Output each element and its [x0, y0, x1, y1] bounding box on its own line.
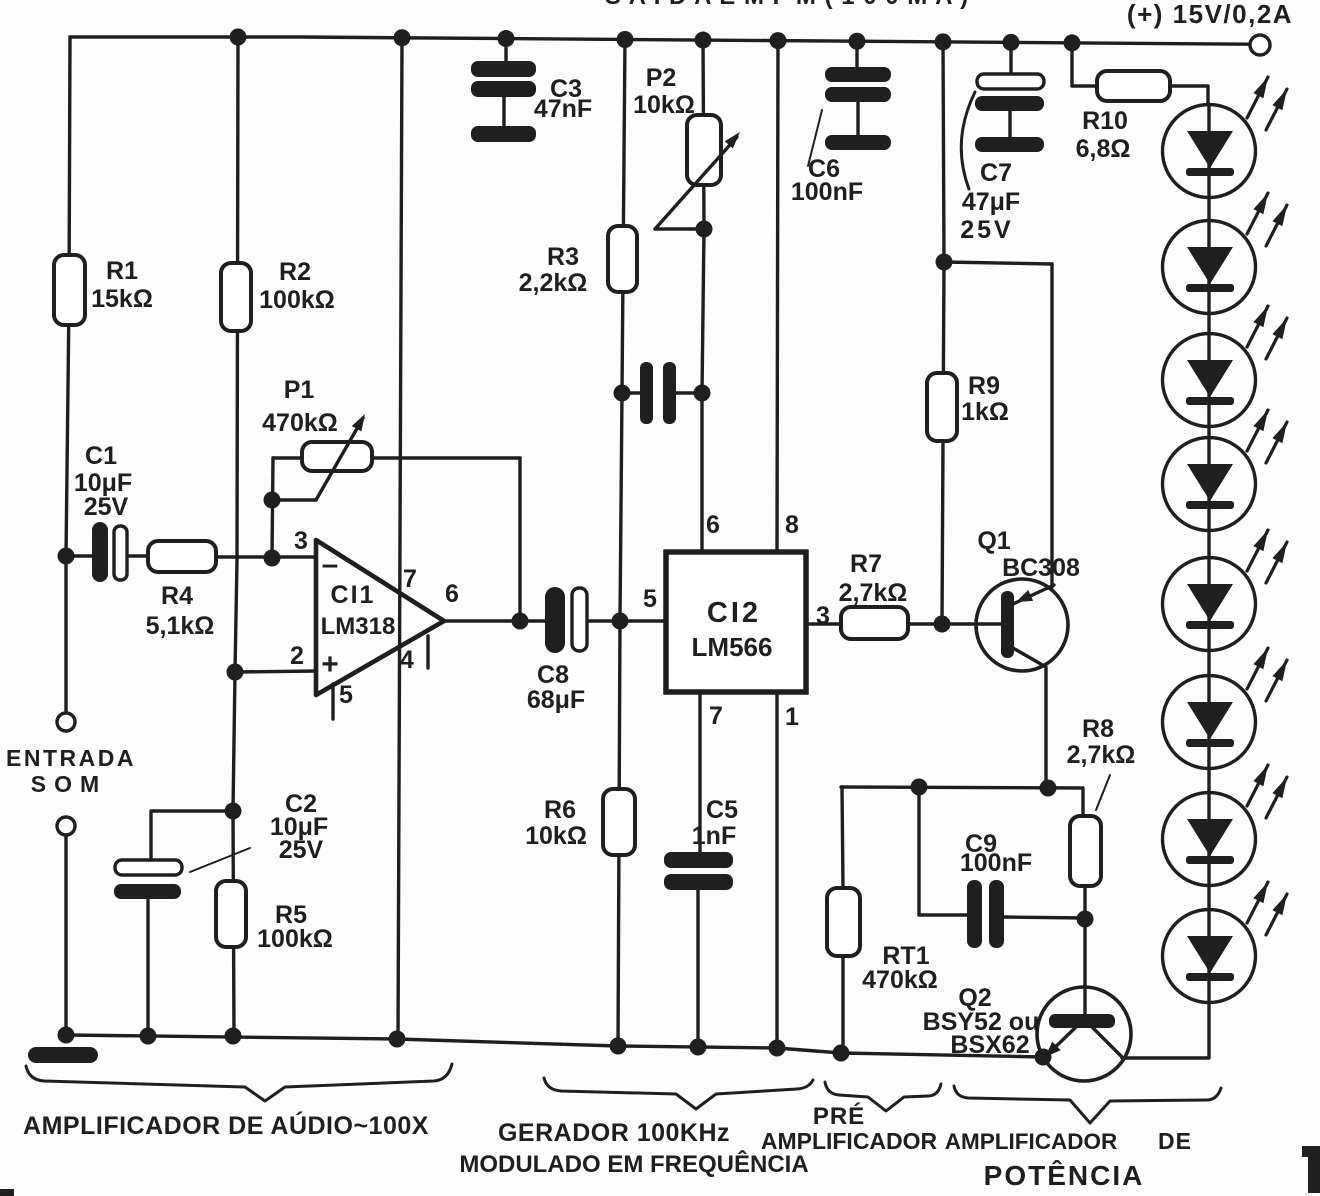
- svg-text:100nF: 100nF: [791, 178, 863, 206]
- svg-text:C7: C7: [980, 159, 1012, 187]
- svg-text:2,7kΩ: 2,7kΩ: [839, 579, 908, 607]
- svg-text:SOM: SOM: [31, 771, 107, 797]
- svg-text:25V: 25V: [84, 493, 129, 521]
- svg-text:470kΩ: 470kΩ: [862, 966, 938, 994]
- svg-text:BSX62: BSX62: [950, 1031, 1029, 1059]
- svg-text:MODULADO EM FREQUÊNCIA: MODULADO EM FREQUÊNCIA: [459, 1150, 808, 1178]
- svg-text:2,2kΩ: 2,2kΩ: [519, 269, 588, 297]
- svg-text:PRÉ: PRÉ: [813, 1102, 865, 1130]
- svg-text:25V: 25V: [279, 836, 324, 864]
- svg-text:10kΩ: 10kΩ: [525, 822, 587, 850]
- svg-text:100kΩ: 100kΩ: [259, 286, 335, 314]
- svg-text:R4: R4: [161, 582, 193, 610]
- svg-text:P2: P2: [646, 64, 677, 92]
- svg-text:15kΩ: 15kΩ: [91, 285, 153, 313]
- svg-text:(+) 15V/0,2A: (+) 15V/0,2A: [1127, 0, 1293, 29]
- svg-text:5: 5: [339, 681, 353, 709]
- svg-text:R7: R7: [850, 550, 882, 578]
- svg-text:R10: R10: [1082, 107, 1128, 135]
- svg-text:1kΩ: 1kΩ: [961, 398, 1009, 426]
- svg-text:4: 4: [400, 646, 414, 674]
- svg-text:GERADOR 100KHz: GERADOR 100KHz: [498, 1119, 730, 1147]
- svg-text:6: 6: [445, 580, 459, 608]
- svg-text:10kΩ: 10kΩ: [633, 91, 695, 119]
- svg-text:R9: R9: [968, 372, 1000, 400]
- svg-text:1nF: 1nF: [692, 822, 736, 850]
- svg-text:R8: R8: [1082, 715, 1114, 743]
- svg-text:6: 6: [706, 511, 720, 539]
- svg-text:C5: C5: [706, 796, 738, 824]
- svg-text:100kΩ: 100kΩ: [257, 925, 333, 953]
- svg-text:5: 5: [643, 585, 657, 613]
- svg-text:LM318: LM318: [321, 613, 396, 640]
- svg-text:R3: R3: [547, 243, 579, 271]
- svg-text:Q1: Q1: [977, 527, 1010, 555]
- svg-text:5,1kΩ: 5,1kΩ: [146, 612, 215, 640]
- svg-text:100nF: 100nF: [960, 849, 1032, 877]
- svg-text:1: 1: [785, 703, 799, 731]
- svg-text:S A I D A E M F M ( 1 0: S A I D A E M F M ( 1 0 0 M A ): [605, 0, 969, 10]
- svg-text:C8: C8: [537, 661, 569, 689]
- svg-text:AMPLIFICADOR DE AÚDIO~100X: AMPLIFICADOR DE AÚDIO~100X: [23, 1110, 429, 1140]
- svg-text:68μF: 68μF: [527, 686, 585, 714]
- svg-text:LM566: LM566: [692, 632, 773, 662]
- svg-text:BC308: BC308: [1002, 554, 1080, 582]
- svg-text:25V: 25V: [960, 216, 1013, 244]
- svg-text:–: –: [322, 548, 339, 581]
- svg-text:47μF: 47μF: [962, 188, 1020, 216]
- svg-text:CI1: CI1: [331, 581, 376, 609]
- svg-text:6,8Ω: 6,8Ω: [1076, 135, 1131, 163]
- svg-text:8: 8: [785, 511, 799, 539]
- svg-text:470kΩ: 470kΩ: [262, 409, 338, 437]
- svg-text:C1: C1: [85, 442, 117, 470]
- svg-text:CI2: CI2: [707, 597, 761, 629]
- svg-text:AMPLIFICADOR: AMPLIFICADOR: [761, 1128, 938, 1154]
- svg-text:R6: R6: [544, 796, 576, 824]
- svg-text:3: 3: [816, 602, 830, 630]
- svg-text:47nF: 47nF: [534, 95, 592, 123]
- svg-text:R2: R2: [279, 258, 311, 286]
- svg-text:AMPLIFICADOR: AMPLIFICADOR: [945, 1129, 1118, 1154]
- svg-text:+: +: [321, 648, 339, 681]
- svg-text:POTÊNCIA: POTÊNCIA: [984, 1160, 1145, 1191]
- svg-text:7: 7: [709, 702, 723, 730]
- svg-text:R1: R1: [106, 257, 138, 285]
- svg-text:3: 3: [294, 527, 308, 555]
- svg-text:P1: P1: [284, 376, 315, 404]
- svg-text:2,7kΩ: 2,7kΩ: [1067, 741, 1136, 769]
- svg-text:7: 7: [403, 565, 417, 593]
- svg-text:DE: DE: [1158, 1128, 1192, 1154]
- svg-text:ENTRADA: ENTRADA: [6, 745, 136, 771]
- svg-text:2: 2: [290, 642, 304, 670]
